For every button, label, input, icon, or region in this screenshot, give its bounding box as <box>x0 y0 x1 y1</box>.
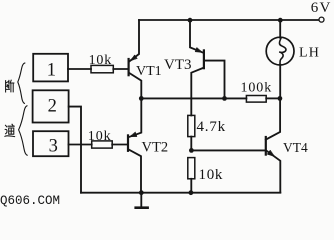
wire box3 to 10k <box>69 144 92 146</box>
brace tong <box>19 106 28 155</box>
wire 6V top rail <box>139 19 319 21</box>
transistor VT2 <box>128 98 141 192</box>
svg-text:10k: 10k <box>89 53 112 68</box>
brace duan <box>18 63 25 103</box>
resistor 10k (VT1 base) <box>91 65 113 72</box>
wire box2 down <box>69 107 81 193</box>
watermark Q606.COM <box>0 194 60 208</box>
resistor 10k (VT2 base) <box>92 141 113 148</box>
ground <box>136 193 148 208</box>
label tong (CJK drawn) <box>5 124 15 136</box>
wire 100k to lamp line <box>266 97 280 99</box>
svg-text:LH: LH <box>299 46 320 61</box>
svg-text:VT3: VT3 <box>164 57 192 73</box>
terminal 6V open circle <box>319 17 324 22</box>
node divider junction <box>189 148 194 153</box>
svg-text:10k: 10k <box>88 129 112 144</box>
node VT3base-line junction <box>222 96 227 101</box>
box 1 <box>33 54 68 82</box>
resistor 100k <box>246 96 266 103</box>
node rail-lamp junction <box>278 18 283 23</box>
node 10k-bottom junction <box>189 190 194 195</box>
transistor VT3 <box>190 20 225 115</box>
svg-text:1: 1 <box>47 61 56 81</box>
node 100k-lamp junction <box>278 96 283 101</box>
svg-text:VT1: VT1 <box>136 64 162 79</box>
wire 10k to VT2 base <box>112 144 127 146</box>
resistor 4.7k <box>188 115 195 136</box>
svg-text:100k: 100k <box>241 81 273 96</box>
wire box1 to 10k <box>68 68 91 70</box>
wire 10k to VT1 base <box>113 68 128 70</box>
wire 10k to bottom line <box>190 179 192 193</box>
box 2 <box>33 90 69 122</box>
wire mid horizontal line <box>141 97 246 99</box>
node rail-VT3 junction <box>188 18 193 23</box>
svg-text:6V: 6V <box>311 0 332 16</box>
box 3 <box>33 131 69 156</box>
transistor VT1 <box>129 20 142 98</box>
svg-text:3: 3 <box>49 136 58 156</box>
node ground junction <box>139 190 144 195</box>
svg-text:VT2: VT2 <box>142 140 169 156</box>
svg-text:10k: 10k <box>199 167 224 183</box>
resistor 10k (lower) <box>188 158 195 179</box>
transistor VT4 <box>266 98 281 192</box>
wire VT4 base <box>191 149 265 151</box>
svg-text:2: 2 <box>48 97 57 117</box>
node VT1emitter-line junction <box>139 96 144 101</box>
label duan (CJK drawn) <box>6 80 14 92</box>
lamp LH <box>266 20 294 98</box>
wire 4.7k to node <box>190 137 192 151</box>
svg-text:4.7k: 4.7k <box>197 119 226 135</box>
svg-text:VT4: VT4 <box>283 140 308 155</box>
wire bottom line <box>81 192 280 194</box>
